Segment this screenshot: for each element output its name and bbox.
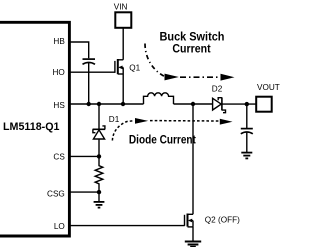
transistor Q1 buck switch NMOS [115, 59, 123, 74]
wire CS pin to sense node [70, 155, 99, 157]
svg-text:CSG: CSG [47, 189, 65, 198]
wire capacitor bottom to HS rail (crosses HO line) [88, 63, 90, 104]
svg-text:HB: HB [53, 37, 65, 46]
svg-text:CS: CS [53, 152, 65, 161]
svg-text:VIN: VIN [114, 2, 128, 11]
ground sense resistor [94, 192, 105, 208]
wire CSG pin to sense node [70, 191, 99, 193]
node junction dot CS [97, 154, 101, 158]
node VIN terminal box [115, 12, 131, 27]
transistor Q2 sync switch NMOS (off) [185, 214, 194, 227]
wire HB pin to bootstrap capacitor [70, 42, 89, 58]
capacitor C1 bootstrap (HB to HS) [83, 58, 96, 60]
svg-text:Diode Current: Diode Current [129, 133, 196, 147]
diode D1 schottky (CS to HS) [93, 104, 106, 156]
svg-text:D1: D1 [109, 115, 120, 124]
node junction dot D1/HS [97, 102, 101, 106]
diode D2 schottky output diode [213, 97, 226, 112]
svg-text:Q1: Q1 [129, 63, 140, 72]
svg-text:HO: HO [53, 68, 65, 77]
wire Q1 source to HS rail [122, 74, 124, 104]
resistor R1 current sense [95, 156, 103, 192]
node junction dot C1/HS [87, 102, 91, 106]
svg-text:Q2 (OFF): Q2 (OFF) [205, 215, 240, 224]
capacitor C2 output cap [241, 104, 253, 152]
wire diode current dashed curved arrow [112, 121, 134, 141]
wire HS rail [70, 103, 144, 105]
wire Q2 source to ground [192, 227, 194, 242]
wire VIN to Q1 drain [122, 28, 124, 60]
wire HO pin to Q1 gate [70, 71, 115, 73]
inductor L1 [144, 93, 174, 104]
wire D2 cathode to VOUT [222, 103, 256, 105]
ground output cap [241, 153, 252, 159]
svg-text:Current: Current [172, 41, 210, 55]
node junction dot Cout/VOUT [245, 102, 249, 106]
wire inductor to D2 anode [174, 103, 213, 105]
wire buck switch current dash-dot curved arrow [145, 44, 165, 77]
node VOUT terminal box [256, 97, 272, 112]
node junction dot Q1 source/HS [121, 102, 125, 106]
node junction dot switch node / Q2 drain [191, 102, 195, 106]
svg-text:HS: HS [53, 101, 65, 110]
svg-text:VOUT: VOUT [257, 83, 280, 92]
node junction dot CSG [97, 190, 101, 194]
wire switch node down to Q2 drain [192, 104, 194, 214]
svg-text:D2: D2 [212, 85, 223, 94]
svg-text:LO: LO [54, 222, 65, 231]
op-amp U1 : LM5118-Q1 controller block outline [0, 22, 69, 236]
svg-text:LM5118-Q1: LM5118-Q1 [3, 121, 60, 133]
wire LO pin to Q2 gate [70, 225, 185, 227]
ground Q2 source [185, 242, 201, 247]
